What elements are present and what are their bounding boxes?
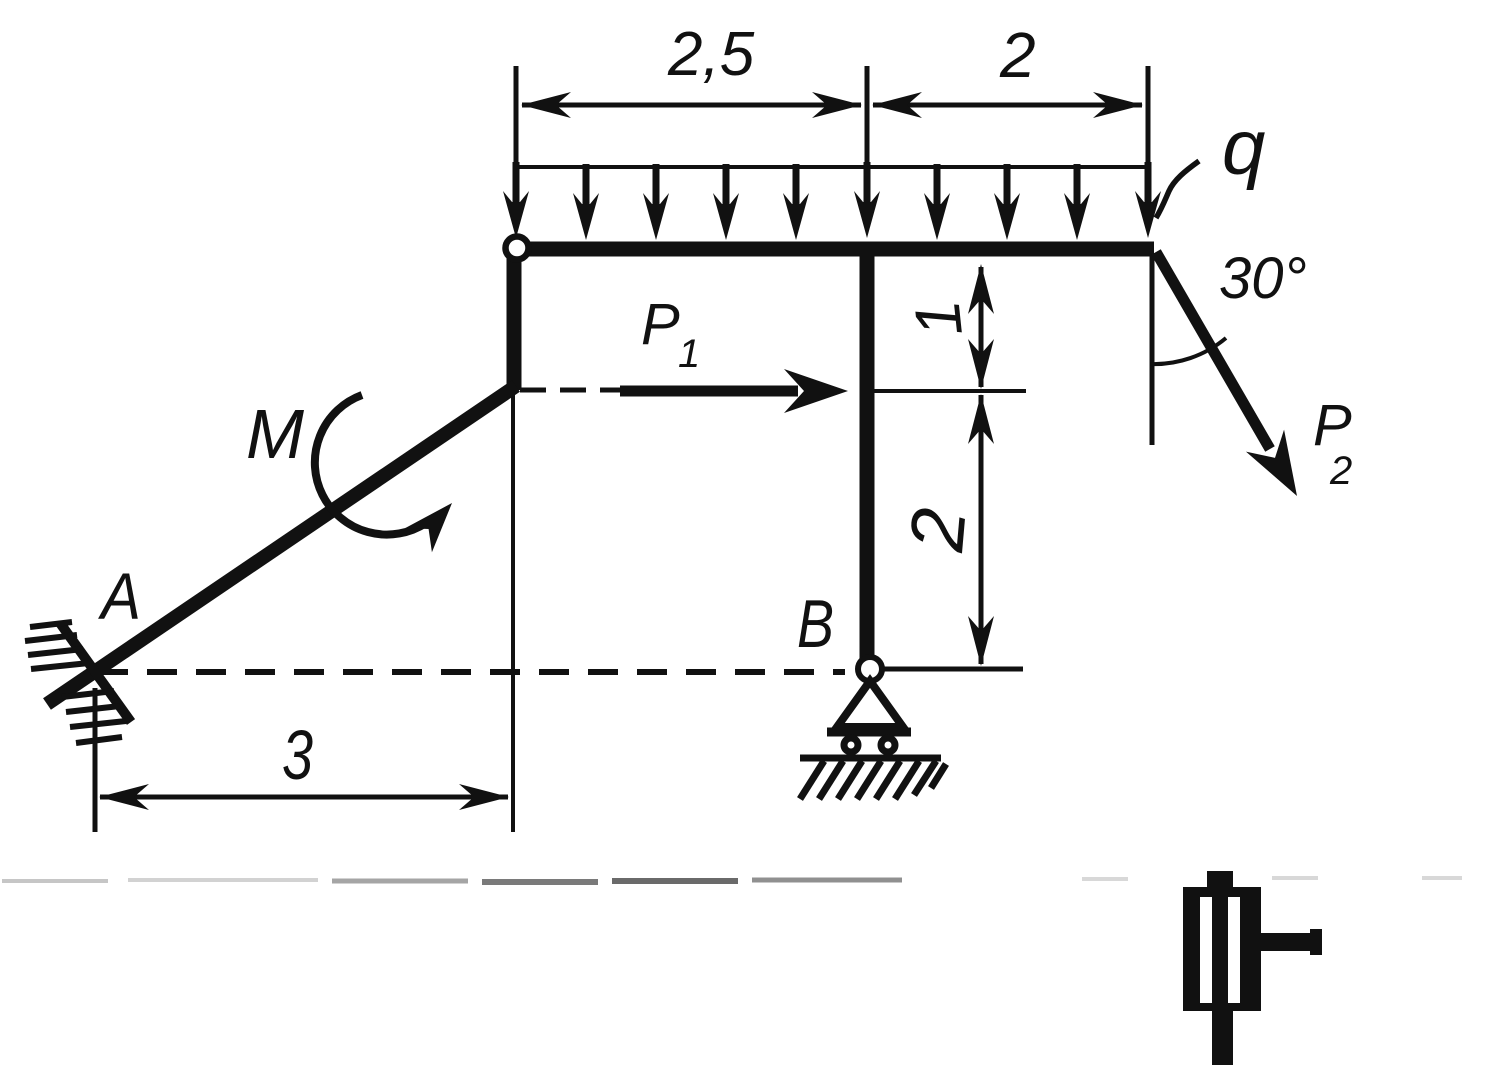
label P2 (1313, 393, 1352, 493)
distributed load arrow 1 (503, 162, 529, 238)
distributed load arrow 5 (783, 164, 809, 240)
svg-text:1: 1 (901, 297, 976, 340)
dimension line 3 (99, 784, 509, 810)
svg-text:2: 2 (1329, 449, 1352, 493)
dimension line 2,5 span (521, 92, 862, 118)
label P1 (641, 292, 700, 376)
dimension line 2 (vertical) (968, 394, 994, 666)
extension line right x=1148 (1146, 66, 1151, 212)
svg-text:M: M (246, 395, 305, 473)
svg-text:B: B (797, 586, 834, 662)
svg-text:30°: 30° (1219, 246, 1307, 311)
top beam member (517, 242, 1154, 257)
support B roller left (844, 738, 858, 752)
angle arc 30 degrees (1150, 338, 1226, 364)
dimension line 2 span (872, 92, 1143, 118)
extension line below A for dim 3 (93, 688, 98, 832)
extension line left x=516 (top dim to beam) (514, 66, 519, 212)
label A (97, 559, 141, 633)
dimension label 3 (282, 716, 313, 794)
support B ground hatching (800, 761, 946, 799)
distributed load arrow 9 (1064, 164, 1090, 240)
svg-text:2: 2 (999, 19, 1036, 91)
scan artifact glyph bottom right (1183, 871, 1322, 1065)
support B roller right (881, 738, 895, 752)
label M (246, 395, 305, 473)
svg-text:q: q (1222, 103, 1265, 191)
distributed load arrow 2 (573, 164, 599, 240)
distributed load arrow 10 (1135, 162, 1161, 238)
support A clamp line (60, 623, 131, 722)
svg-text:3: 3 (282, 716, 313, 794)
label 30 degrees (1219, 246, 1307, 311)
extension line below beam right end (1150, 253, 1155, 445)
extension line middle x=867 (865, 66, 870, 210)
force P1 dashed tail (520, 388, 620, 393)
distributed load top line (516, 165, 1148, 169)
svg-text:2: 2 (894, 505, 982, 556)
dimension tick at P1 level (867, 389, 1026, 393)
dimension label 1 (rotated) (901, 297, 976, 340)
distributed load arrow 7 (924, 164, 950, 240)
support B ground line (800, 755, 941, 762)
label B (797, 586, 834, 662)
support A hatching (25, 622, 126, 743)
dimension line 1 (vertical) (968, 264, 994, 389)
dashed axis line through A and B (98, 669, 845, 675)
label q (1222, 103, 1265, 191)
pin circle at B (858, 657, 882, 681)
support B triangle (837, 681, 903, 727)
support B base line (827, 728, 911, 737)
distributed load arrow 4 (713, 164, 739, 240)
hinge circle at top left of beam (506, 237, 529, 260)
leader line from q to load (1156, 161, 1199, 218)
left post member (hinge to bend) (507, 249, 522, 390)
extension line below bend for dim 3 (511, 392, 515, 832)
inclined member from A to bend (47, 386, 516, 704)
dimension label 2,5 (667, 20, 755, 89)
distributed load arrow 6 (854, 162, 880, 238)
moment M arc arrow (315, 395, 466, 552)
scan artifact gray streak bottom left (2, 878, 1462, 882)
distributed load arrow 3 (643, 164, 669, 240)
svg-text:A: A (97, 559, 141, 633)
svg-text:2,5: 2,5 (667, 20, 755, 89)
force P2 arrow (1156, 252, 1316, 507)
solid tick line right of B (884, 667, 1023, 672)
force P1 arrow (620, 369, 848, 413)
dimension label 2 (rotated) (894, 505, 982, 556)
distributed load arrow 8 (994, 164, 1020, 240)
dimension label 2 (999, 19, 1036, 91)
svg-text:1: 1 (678, 332, 700, 376)
middle column member (860, 249, 875, 662)
svg-text:P: P (641, 292, 680, 357)
